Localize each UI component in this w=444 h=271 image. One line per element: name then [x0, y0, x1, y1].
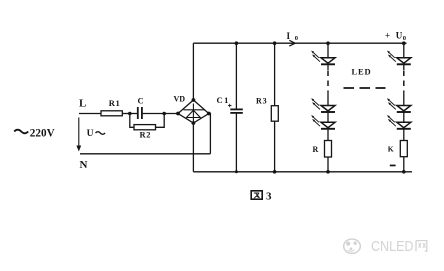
svg-text:U: U [87, 129, 94, 139]
svg-text:LED: LED [352, 67, 372, 77]
svg-text:R: R [313, 145, 319, 154]
svg-text:VD: VD [174, 95, 186, 104]
svg-text:R2: R2 [140, 130, 152, 140]
svg-text:R1: R1 [109, 98, 121, 108]
svg-text:L: L [79, 98, 86, 110]
svg-text:C: C [138, 96, 144, 106]
svg-text:220V: 220V [30, 127, 55, 139]
svg-text:CNLED: CNLED [371, 238, 414, 255]
svg-text:0: 0 [295, 35, 298, 42]
svg-text:0: 0 [403, 35, 406, 42]
svg-text:+: + [385, 30, 390, 40]
svg-text:N: N [80, 159, 88, 171]
svg-text:U: U [396, 30, 403, 40]
svg-text:K: K [388, 145, 394, 154]
svg-text:3: 3 [266, 190, 272, 202]
svg-text:R3: R3 [256, 97, 267, 106]
svg-text:I: I [287, 31, 291, 41]
svg-text:C1: C1 [217, 95, 230, 105]
